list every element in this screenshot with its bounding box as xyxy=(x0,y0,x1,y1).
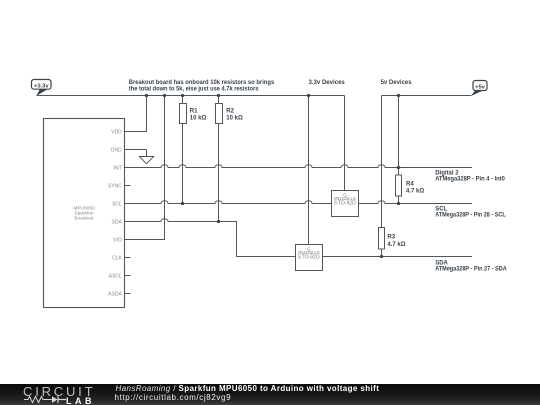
svg-text:Breakout: Breakout xyxy=(74,215,94,221)
svg-text:+5v: +5v xyxy=(475,84,486,90)
svg-text:SCL: SCL xyxy=(112,201,122,207)
svg-text:SYNC: SYNC xyxy=(108,183,122,189)
svg-text:TO-92: TO-92 xyxy=(302,255,316,261)
svg-text:GND: GND xyxy=(111,147,123,153)
svg-text:ASDA: ASDA xyxy=(108,291,122,297)
svg-text:5v Devices: 5v Devices xyxy=(381,80,413,86)
svg-text:D: D xyxy=(316,255,320,261)
svg-text:R1: R1 xyxy=(190,109,198,115)
svg-text:R4: R4 xyxy=(406,182,414,188)
svg-text:TO-92: TO-92 xyxy=(338,201,352,207)
svg-text:ASCL: ASCL xyxy=(109,273,122,279)
svg-text:CLK: CLK xyxy=(112,255,122,261)
svg-text:10 kΩ: 10 kΩ xyxy=(226,115,243,121)
svg-text:ATMega328P - Pin 4 - Int0: ATMega328P - Pin 4 - Int0 xyxy=(435,177,505,183)
svg-text:D: D xyxy=(352,201,356,207)
svg-text:VDD: VDD xyxy=(111,129,122,135)
svg-text:4.7 kΩ: 4.7 kΩ xyxy=(387,242,405,248)
svg-text:4.7 kΩ: 4.7 kΩ xyxy=(406,188,424,194)
svg-text:the total down to 5k, else jus: the total down to 5k, else just use 4.7k… xyxy=(129,86,259,92)
svg-text:ATMega328P - Pin 28 - SCL: ATMega328P - Pin 28 - SCL xyxy=(435,213,506,219)
svg-text:3.3v Devices: 3.3v Devices xyxy=(309,80,346,86)
svg-text:ATMega328P - Pin 27 - SDA: ATMega328P - Pin 27 - SDA xyxy=(435,267,507,273)
svg-text:SDA: SDA xyxy=(112,219,123,225)
svg-text:VIO: VIO xyxy=(113,237,122,243)
svg-text:INT: INT xyxy=(114,165,122,171)
svg-text:R3: R3 xyxy=(387,234,395,240)
svg-text:+3.3v: +3.3v xyxy=(34,83,49,89)
svg-text:R2: R2 xyxy=(226,109,234,115)
svg-text:Breakout board has onboard 10k: Breakout board has onboard 10k resistors… xyxy=(129,80,275,86)
svg-text:10 kΩ: 10 kΩ xyxy=(190,115,207,121)
